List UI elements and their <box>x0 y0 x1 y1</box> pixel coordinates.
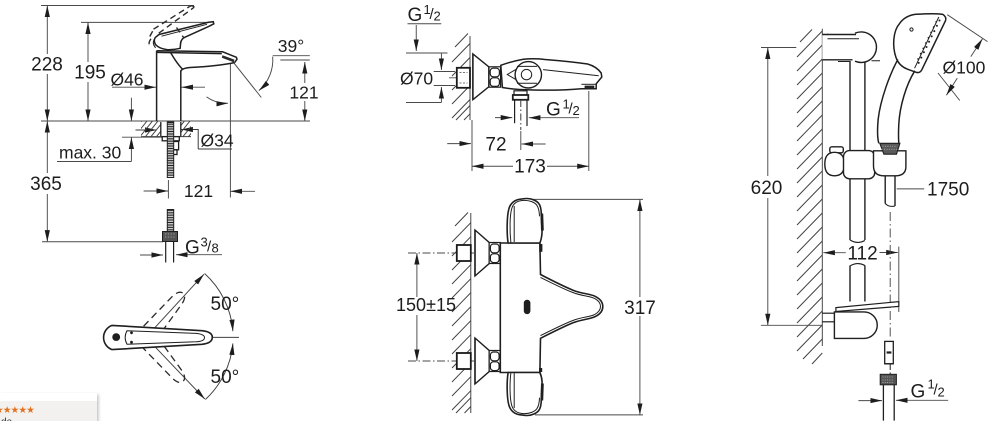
bracket lower shoulders <box>838 60 880 63</box>
svg-text:365: 365 <box>30 174 62 195</box>
G1/2 bottom left arrow <box>495 117 512 119</box>
partial text <box>1 417 12 421</box>
wall flange of rail bracket <box>827 34 829 59</box>
svg-text:173: 173 <box>514 157 546 178</box>
faucet body left edge <box>156 51 158 121</box>
dimension 121 right line <box>304 62 306 83</box>
spout outlet reference line <box>280 59 310 61</box>
countertop deck line <box>41 120 310 122</box>
svg-text:50°: 50° <box>211 294 240 315</box>
review overlay card bottom-left <box>0 393 97 421</box>
hose tube below nut <box>883 364 894 421</box>
Ø34 left arrow <box>136 129 157 131</box>
rail break curves <box>850 240 865 266</box>
svg-text:2: 2 <box>573 103 580 118</box>
dimension 228 line <box>46 6 48 55</box>
svg-text:8: 8 <box>212 241 219 256</box>
dashed ghost handle up <box>143 287 190 339</box>
G1/2 right arrow + underline <box>896 399 948 401</box>
svg-text:195: 195 <box>74 63 106 84</box>
dim 620 line <box>767 48 769 177</box>
svg-text:72: 72 <box>485 135 506 156</box>
317 bottom extension <box>535 414 643 416</box>
dimension 121 bottom right arrow <box>230 190 255 192</box>
hose nipple step <box>173 142 179 150</box>
slider lock knob <box>825 147 845 176</box>
Ø100 arrow upper <box>971 39 983 57</box>
svg-text:Ø46: Ø46 <box>110 70 143 90</box>
hose bottom stub <box>885 341 894 363</box>
head pivot dot <box>910 28 913 31</box>
bottom handle plan <box>507 373 542 416</box>
top wall bracket <box>822 32 876 63</box>
top hex nut <box>489 243 500 264</box>
extension line lever height 195 <box>81 21 211 23</box>
svg-text:G: G <box>911 382 926 403</box>
Ø70 top arrow <box>440 53 442 70</box>
bottom rail bracket <box>834 312 877 339</box>
knob left notch <box>507 69 516 79</box>
spray holes dotted rows <box>917 20 940 64</box>
aerator slot dark <box>222 55 235 62</box>
union center dash-dot <box>449 77 470 79</box>
spout inner top line <box>543 70 599 76</box>
top view solid handle <box>104 325 213 349</box>
wall escutcheon cone <box>473 54 489 100</box>
extension line top (raised lever height) <box>41 5 194 7</box>
lever raised dashed <box>149 6 194 47</box>
thermostat wall hatch <box>452 213 471 414</box>
shower head capsule <box>894 14 946 73</box>
aerator extension line <box>588 91 590 171</box>
shower outlet below body <box>513 91 529 126</box>
dashed ghost handle down <box>142 336 189 388</box>
max30 extension line under deck <box>122 136 162 138</box>
317 top extension <box>528 198 643 200</box>
dim 72 right arrow <box>522 143 546 145</box>
max30 upper arrow <box>130 98 132 121</box>
Ø100 extension line upper <box>947 15 987 42</box>
svg-text:G: G <box>408 5 423 26</box>
max30 leader line <box>57 161 131 163</box>
faucet body right edge <box>180 71 182 122</box>
dimension arrow Ø46 right <box>182 86 206 88</box>
faucet axis extension line <box>167 180 169 199</box>
deck bottom line <box>141 136 191 138</box>
extension line hose end 365 <box>42 241 163 243</box>
wing inner parallel line <box>541 277 601 335</box>
39 degree underline <box>273 55 310 57</box>
lever cap detail <box>153 39 155 48</box>
supply hose braid segment <box>167 210 173 232</box>
svg-text:620: 620 <box>751 178 783 199</box>
radial line -50 down <box>146 337 205 399</box>
leader 1750 <box>897 188 925 190</box>
union axis dash-dot top <box>408 252 500 254</box>
spout underside curve <box>181 63 235 72</box>
corner mark top <box>539 244 542 252</box>
hose axis dash-dot <box>889 212 891 338</box>
aerator tip extension line <box>229 64 231 198</box>
handle axis line <box>183 336 239 338</box>
thermostat body with outlet wing <box>500 243 603 373</box>
dimension 121 bottom left arrow <box>144 190 168 192</box>
outlet axis dash-dot <box>520 100 522 130</box>
flange top extension line <box>406 52 448 54</box>
Ø70 bottom arrow <box>440 87 442 103</box>
handle screw dots <box>131 332 133 334</box>
hand shower handle <box>878 60 915 144</box>
lever inner line <box>162 24 208 36</box>
spray face inner line <box>915 17 939 68</box>
svg-text:121: 121 <box>289 83 318 103</box>
svg-text:max. 30: max. 30 <box>59 143 122 163</box>
radial line +50 up <box>146 274 204 337</box>
G1/2 top underline <box>408 23 442 25</box>
arc upper to axis <box>205 274 233 332</box>
top handle plan <box>507 199 542 244</box>
S-union hex nut <box>489 67 501 87</box>
svg-text:121: 121 <box>184 181 213 201</box>
mounting nut under deck <box>161 122 181 155</box>
Ø100 extension line lower <box>938 73 960 101</box>
svg-text:317: 317 <box>624 298 656 319</box>
hand shower hose upper <box>885 176 895 206</box>
G1/2 left arrow <box>858 400 882 402</box>
svg-text:1750: 1750 <box>927 180 969 201</box>
arc lower to axis <box>205 343 233 399</box>
spout inner curve at body <box>171 53 184 70</box>
threaded shank with texture <box>167 122 173 178</box>
deck hatch right <box>172 121 201 137</box>
wall extension line below <box>471 120 473 171</box>
112 extension line <box>898 247 900 312</box>
in-wall union nut G1/2 <box>457 68 470 88</box>
star rating <box>0 405 34 416</box>
pipe extension line lower <box>434 85 455 87</box>
bracket inner line <box>828 38 860 40</box>
shower wall hatch <box>797 30 822 365</box>
bottom in-wall fitting <box>457 353 471 369</box>
svg-text:Ø70: Ø70 <box>400 69 433 89</box>
top escutcheon <box>475 230 489 276</box>
svg-text:Ø34: Ø34 <box>201 131 234 151</box>
svg-text:50°: 50° <box>211 367 240 388</box>
dim 317 line <box>639 199 641 297</box>
aerator block <box>581 83 596 85</box>
water stream line 39deg <box>232 60 261 97</box>
svg-text:39°: 39° <box>278 36 304 56</box>
handle knurled cone <box>880 143 900 154</box>
G1/2 bottom right arrow + underline <box>529 117 579 119</box>
G3/8 arrows and underline <box>140 254 163 256</box>
svg-text:112: 112 <box>847 244 877 265</box>
hose tube below connector <box>166 242 174 263</box>
bottom escutcheon <box>475 338 489 384</box>
G3/8 hose connector nut <box>163 232 178 242</box>
deck cross-section <box>129 121 201 137</box>
handle cap dark oval <box>113 334 120 341</box>
top in-wall fitting <box>457 245 471 261</box>
dimension 365 line <box>46 121 48 173</box>
rail tube <box>850 60 865 302</box>
knob chord lines <box>517 65 537 67</box>
faucet body <box>157 51 237 121</box>
Ø100 arrow lower <box>946 78 957 95</box>
dim 620 extension bottom <box>761 324 822 326</box>
max30 lower arrow <box>130 137 132 161</box>
dimension arrow Ø46 left <box>112 86 156 88</box>
Ø34 right arrow leader <box>181 130 198 150</box>
lever neck line <box>180 39 182 48</box>
flange bottom extension line <box>406 102 441 104</box>
dim 112 right arrow <box>880 252 898 254</box>
wall stub of bottom bracket <box>822 313 835 322</box>
dimension 195 line <box>87 22 89 62</box>
spout top edge <box>157 51 237 63</box>
outlet dark blob <box>524 300 530 313</box>
control knob circle <box>515 62 541 88</box>
bottom hex nut <box>489 351 500 372</box>
wall hatch middle top <box>452 34 470 121</box>
handle inner outline <box>125 331 204 344</box>
outlet axis extension <box>520 131 522 150</box>
39 degree arc with arrow <box>259 57 273 91</box>
dim 150±15 line <box>416 253 418 297</box>
Ø34 underline <box>198 148 232 150</box>
spout second top line <box>157 52 222 53</box>
thermostat wall face <box>470 213 472 413</box>
svg-text:G: G <box>546 100 561 121</box>
hose stub connector line <box>885 363 894 365</box>
deck hatch left <box>129 121 169 137</box>
union axis dash-dot bottom <box>408 360 500 362</box>
shower wall face <box>821 29 823 346</box>
dim 72 left arrow <box>447 143 471 145</box>
svg-text:150±15: 150±15 <box>396 295 456 315</box>
corner mark bottom <box>539 368 542 372</box>
dim 173 line <box>472 165 513 167</box>
pipe extension line upper <box>434 71 455 73</box>
dim 620 extension top <box>761 47 796 49</box>
washer under deck <box>162 137 179 141</box>
svg-text:Ø100: Ø100 <box>943 58 986 78</box>
curved pointer to aerator line <box>207 97 229 103</box>
G1/2 top arrow down <box>415 25 417 51</box>
mixer body with spout <box>501 59 602 90</box>
slider cup <box>874 151 906 176</box>
svg-text:G: G <box>185 238 200 259</box>
slider clamp on rail <box>844 151 875 179</box>
svg-text:228: 228 <box>31 55 63 76</box>
soap tray <box>836 302 899 312</box>
bottom knurled nut <box>880 374 896 385</box>
lever handle solid <box>154 22 213 50</box>
dim 112 left arrow <box>823 252 846 254</box>
svg-text:2: 2 <box>938 385 945 400</box>
svg-text:2: 2 <box>434 9 441 24</box>
